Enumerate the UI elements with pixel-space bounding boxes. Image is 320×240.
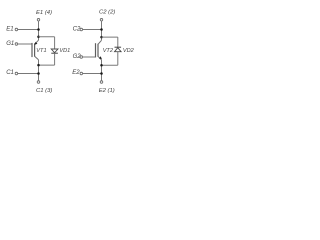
- svg-text:VT2: VT2: [103, 48, 114, 54]
- svg-text:E1: E1: [6, 26, 13, 32]
- svg-text:E1 (4): E1 (4): [36, 10, 52, 16]
- svg-text:E2: E2: [72, 70, 80, 76]
- svg-text:C2 (2): C2 (2): [99, 10, 115, 16]
- svg-text:VD2: VD2: [123, 48, 135, 54]
- svg-text:C1 (3): C1 (3): [36, 88, 52, 94]
- svg-text:G1: G1: [6, 41, 14, 47]
- svg-text:VD1: VD1: [59, 48, 70, 54]
- svg-text:C1: C1: [6, 70, 14, 76]
- svg-text:VT1: VT1: [36, 48, 46, 54]
- svg-text:E2 (1): E2 (1): [99, 88, 115, 94]
